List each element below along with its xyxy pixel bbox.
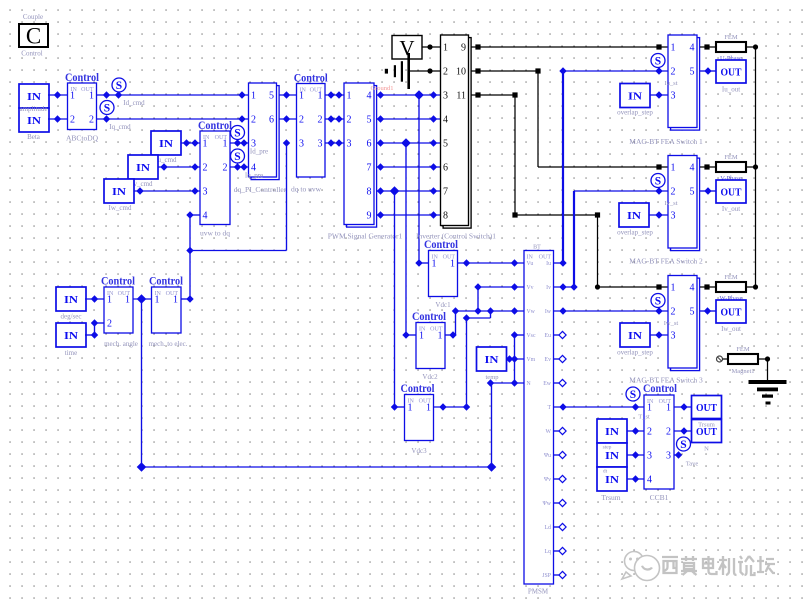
ground symbol [749,380,787,384]
svg-text:1: 1 [89,91,94,102]
FEA switch block MAG-BT FEA Switch 2 [671,158,700,251]
svg-text:IN: IN [628,91,642,103]
svg-text:1: 1 [318,91,323,102]
watermark text ximo motor forum [663,557,776,576]
wire PMSM Vv row [478,286,524,288]
svg-text:1: 1 [203,139,208,150]
svg-text:4: 4 [690,283,695,294]
svg-text:Control: Control [401,383,435,395]
svg-text:FEM: FEM [724,274,738,281]
svg-text:Iu: Iu [546,261,551,267]
voltage source V1 [392,36,422,60]
inverter block (Control Switch)1 [443,38,471,229]
wire PMSM Vsc row [515,334,525,336]
svg-text:v_cmd: v_cmd [133,180,153,188]
svg-text:FEM: FEM [724,34,738,41]
svg-text:IN: IN [605,426,619,438]
wire gate signal 3 [377,142,441,144]
terminal PMSM Eu [554,334,561,336]
svg-text:2: 2 [223,163,228,174]
svg-text:2: 2 [347,115,352,126]
svg-text:OUT: OUT [721,307,743,319]
svg-text:W: W [546,429,552,435]
wire CCB1 out2 to N OUT [674,430,692,432]
input block v_cmd [128,155,158,179]
svg-text:5: 5 [269,91,274,102]
svg-text:6: 6 [443,163,448,174]
wire modulation phase 1 [325,94,344,96]
junction tap to Vdc2 [401,138,411,148]
svg-text:Magnet1: Magnet1 [731,368,754,375]
svg-text:Control: Control [65,72,99,84]
integrator S8 T_st [626,387,640,401]
wire V1 to inverter pin1 [422,46,441,48]
svg-text:9: 9 [461,43,466,54]
svg-text:2: 2 [671,187,676,198]
input block overlap_step 1 [620,84,650,108]
svg-text:N: N [704,446,709,453]
wire PMSM N row [491,382,525,384]
svg-text:S: S [116,80,122,92]
svg-text:2: 2 [107,319,112,330]
svg-text:1: 1 [155,295,160,306]
svg-text:PMSM: PMSM [528,588,549,596]
junction switch2 pin2 [655,187,662,194]
svg-text:Ew: Ew [543,381,552,387]
output block Iv_out [716,180,746,203]
wire overlap_step3 to switch3 pin3 [650,334,668,336]
svg-text:S: S [630,389,636,401]
control block PWM Signal Generator [347,86,377,228]
svg-text:1: 1 [432,259,437,270]
terminal PMSM JSP [554,574,561,576]
wire overlap_step2 to switch2 pin3 [649,214,668,216]
integrator S1 Id_cmd [112,78,126,92]
svg-text:3: 3 [666,451,671,462]
svg-text:1: 1 [419,331,424,342]
svg-text:IN: IN [27,115,41,127]
svg-text:11: 11 [456,91,466,102]
wire into Vdc1 [415,259,422,266]
wire switch3 pin5 to Iw_out [700,310,716,312]
wire PMSM Iw output to switch3 pin2 [554,310,669,312]
svg-text:Ψw: Ψw [543,501,552,507]
svg-text:Vm: Vm [527,357,536,363]
integrator S3 Id_pre [231,126,245,140]
FEA switch block MAG-BT FEA Switch 1 [671,38,700,131]
svg-text:2: 2 [203,163,208,174]
wire PMSM T output to CCB1 pin1 [554,406,645,408]
terminal PMSM Psi-u [554,454,561,456]
svg-text:Control: Control [412,311,446,323]
wire dt to CCB1 pin4 [627,478,644,480]
svg-text:Iv_st: Iv_st [665,200,678,207]
svg-text:Iv_out: Iv_out [722,205,740,213]
svg-text:2: 2 [666,427,671,438]
svg-text:IN: IN [159,138,173,150]
wire electrical angle theta net [283,139,290,146]
svg-text:7: 7 [443,187,448,198]
svg-text:uvw to dq: uvw to dq [200,229,230,238]
wire FEM V to return bus [746,166,756,168]
wire Beta to ABCtoDQ pin2 [48,118,68,120]
input block u_cmd [151,131,181,155]
svg-text:1: 1 [443,43,448,54]
wire v_cmd to uvw-to-dq pin2 [158,166,200,168]
wire switch2 pin5 to Iv_out [700,190,716,192]
svg-text:PWM Signal Generator1: PWM Signal Generator1 [328,232,403,241]
wire Iv to switch2 pin2 [573,191,575,287]
terminal PMSM W [554,430,561,432]
svg-text:1: 1 [450,259,455,270]
watermark logo [622,552,660,581]
input block step [597,443,627,467]
svg-text:IN: IN [527,255,534,261]
svg-text:IN: IN [27,91,41,103]
svg-text:IN: IN [64,294,78,306]
svg-text:Vv: Vv [527,285,534,291]
svg-text:3: 3 [671,211,676,222]
svg-text:6: 6 [269,115,274,126]
svg-text:IN: IN [136,162,150,174]
input block amplitude [19,84,49,108]
control block dq_PI_Controller [251,86,279,180]
wire temp to PMSM Vm [507,358,525,360]
svg-text:2: 2 [647,427,652,438]
input block Beta [19,108,49,132]
svg-text:4: 4 [203,211,208,222]
terminal PMSM Psi-w [554,502,561,504]
svg-text:1: 1 [70,91,75,102]
svg-text:1: 1 [173,295,178,306]
terminal PMSM Ld [554,526,561,528]
svg-text:V: V [399,36,414,60]
svg-text:2: 2 [318,115,323,126]
wire PMSM Iu output [554,262,564,264]
svg-text:Iw_out: Iw_out [721,325,741,333]
svg-text:1: 1 [347,91,352,102]
svg-text:ABCtoDQ: ABCtoDQ [66,134,99,143]
svg-text:5: 5 [690,67,695,78]
svg-text:Iv: Iv [546,285,551,291]
svg-text:deg/sec: deg/sec [61,313,82,321]
svg-text:IN: IN [112,186,126,198]
wire phase U from inverter pin9 to switch1 pin1 [472,46,669,48]
svg-text:5: 5 [443,139,448,150]
input block deg/sec [56,287,86,311]
svg-text:8: 8 [443,211,448,222]
svg-text:Lq: Lq [545,549,552,555]
svg-text:overlap_step: overlap_step [617,229,653,237]
svg-text:Id_cmd: Id_cmd [123,99,145,107]
svg-text:7: 7 [367,163,372,174]
svg-text:2: 2 [251,115,256,126]
svg-text:amplitude: amplitude [20,105,48,113]
svg-text:Iw: Iw [545,309,552,315]
svg-text:CCB1: CCB1 [650,493,669,502]
input block overlap_step 2 [619,203,649,227]
wire gate signal 6 [377,214,441,216]
wire FEM W to return bus [746,286,756,288]
svg-text:overlap_step: overlap_step [617,109,653,117]
wire DC return bus vertical [755,47,757,287]
integrator S4 Iq_pre [231,149,245,163]
svg-text:3: 3 [671,331,676,342]
svg-text:mech. angle: mech. angle [104,340,138,348]
svg-text:step: step [603,445,612,451]
svg-text:C: C [26,24,41,49]
wire into Vdc3 [391,403,398,410]
wire Iu to switch1 pin2 [562,71,564,263]
junction switch1 pin2 [655,67,662,74]
wire w to CCB1 pin2 [627,430,644,432]
svg-text:2: 2 [671,307,676,318]
wire battery to inverter pin2 [409,70,441,72]
wire switch2 pin4 to FEM V-Phase [700,166,716,168]
integrator S2 Iq_cmd [100,101,114,115]
svg-text:Ground1: Ground1 [370,85,393,92]
svg-text:4: 4 [367,91,372,102]
wire vertical to Vdc3 input [394,191,396,407]
junction tap to Vdc1 [414,90,424,100]
svg-text:Vdc2: Vdc2 [422,373,438,381]
terminal open circle [717,356,723,362]
wire gate signal 5 [377,190,441,192]
svg-text:Ψu: Ψu [544,453,551,459]
wire Vdc3 output [434,406,467,408]
wire magnet to ground [758,358,768,360]
svg-text:BT: BT [533,245,541,251]
FEA switch block MAG-BT FEA Switch 3 [671,278,700,371]
svg-text:1: 1 [125,295,130,306]
svg-text:IN: IN [628,330,642,342]
svg-text:Control: Control [424,239,458,251]
wire Vdc2 output [445,334,456,336]
svg-text:T_st: T_st [638,414,650,421]
svg-text:Iw_cmd: Iw_cmd [109,204,132,212]
terminal PMSM Ew [554,382,561,384]
svg-text:Control: Control [149,276,183,288]
input block dt [597,467,627,491]
svg-text:9: 9 [367,211,372,222]
wire vertical to Vdc1 input [418,95,420,263]
svg-text:1: 1 [107,295,112,306]
wire gate signal 4 [377,166,441,168]
wire switch1 pin4 to FEM U-Phase [700,46,716,48]
junction switch3 pin2 [655,307,662,314]
wire mech angle to mech-to-elec [133,298,152,300]
svg-text:1: 1 [671,43,676,54]
junction tap to Vdc3 [390,186,400,196]
svg-text:4: 4 [690,163,695,174]
svg-text:1: 1 [408,403,413,414]
svg-text:OUT: OUT [539,255,552,261]
svg-text:5: 5 [367,115,372,126]
svg-text:Iu_out: Iu_out [722,86,740,94]
svg-text:Control: Control [643,383,677,395]
svg-text:Control: Control [101,276,135,288]
svg-text:S: S [655,56,661,68]
svg-text:Trsum: Trsum [601,493,620,502]
svg-text:Iu_st: Iu_st [665,80,678,87]
svg-text:1: 1 [299,91,304,102]
svg-text:IN: IN [627,210,641,222]
wire modulation phase 2 [325,118,344,120]
svg-text:Tave: Tave [686,461,699,468]
svg-text:S: S [655,296,661,308]
svg-text:3: 3 [203,187,208,198]
wire mech-to-elec output [181,298,190,300]
svg-text:3: 3 [299,139,304,150]
input block w [597,419,627,443]
svg-text:IN: IN [605,450,619,462]
wire deg/sec to mech angle pin1 [85,298,104,300]
svg-text:Vu: Vu [527,261,534,267]
svg-text:Vsc: Vsc [527,333,536,339]
svg-text:1: 1 [426,403,431,414]
wire Vd ref [280,94,297,96]
svg-text:1: 1 [223,139,228,150]
wire phase W from inverter pin11 [472,94,516,96]
svg-text:2: 2 [443,67,448,78]
wire neutral vertical [514,335,516,383]
output block Trsum [692,396,722,419]
wire w_cmd to uvw-to-dq pin3 [134,190,200,192]
svg-text:8: 8 [367,187,372,198]
svg-text:OUT: OUT [721,187,743,199]
svg-text:3: 3 [318,139,323,150]
svg-text:MAG-BT FEA Switch 1: MAG-BT FEA Switch 1 [629,137,703,146]
wire Id_cmd [97,94,249,96]
svg-text:6: 6 [367,139,372,150]
svg-text:2: 2 [671,67,676,78]
svg-text:1: 1 [251,91,256,102]
svg-text:Ψv: Ψv [544,477,551,483]
output block N [692,420,722,443]
svg-text:Trsum: Trsum [698,422,715,429]
svg-text:3: 3 [671,91,676,102]
svg-text:Id_pre: Id_pre [250,148,268,156]
svg-text:mech. to elec.: mech. to elec. [149,340,188,348]
terminal PMSM Ev [554,358,561,360]
svg-text:10: 10 [456,67,466,78]
svg-text:3: 3 [347,139,352,150]
svg-text:5: 5 [690,187,695,198]
wire Iq_cmd [97,118,249,120]
svg-text:OUT: OUT [696,402,718,414]
svg-text:FEM: FEM [736,346,750,353]
svg-text:FEM: FEM [724,154,738,161]
wire gate signal 1 [377,94,441,96]
wire gate signal 2 [377,118,441,120]
svg-text:JSP: JSP [542,573,551,579]
svg-text:Beta: Beta [27,133,41,141]
svg-text:Ev: Ev [545,357,552,363]
wire Vq ref [280,118,297,120]
wire vertical to Vdc2 input [405,143,407,335]
svg-text:Vdc3: Vdc3 [411,447,427,455]
svg-text:dq_PI_Controller: dq_PI_Controller [234,185,287,194]
wire PMSM Vw row [456,310,525,312]
svg-text:Couple: Couple [23,13,43,21]
svg-text:T: T [547,405,551,411]
svg-text:1: 1 [438,331,443,342]
svg-text:Ld: Ld [545,525,552,531]
svg-text:Vw: Vw [527,309,536,315]
wire CCB1 out1 to Trsum OUT [674,406,692,408]
wire phase V from inverter pin10 [472,70,539,72]
svg-text:2: 2 [70,115,75,126]
wire mech angle to PMSM N (bottom route) [141,299,143,467]
terminal PMSM Lq [554,550,561,552]
svg-text:MAG-BT FEA Switch 2: MAG-BT FEA Switch 2 [629,257,703,266]
svg-text:IN: IN [64,330,78,342]
output block Iw_out [716,300,746,323]
wire overlap_step1 to switch1 pin3 [650,94,668,96]
svg-text:dt: dt [603,469,608,475]
svg-text:IN: IN [605,474,619,486]
svg-text:IN: IN [485,354,499,366]
wire PMSM Iv output [554,286,575,288]
integrator S5 Iu_st [651,54,665,68]
output block Iu_out [716,60,746,83]
integrator S6 Iv_st [651,174,665,188]
svg-text:2: 2 [89,115,94,126]
svg-text:Vdc1: Vdc1 [435,301,451,309]
svg-text:u_cmd: u_cmd [157,156,177,164]
svg-text:Control: Control [294,73,328,85]
svg-text:1: 1 [671,283,676,294]
wire into Vdc2 [402,331,409,338]
wire modulation phase 3 [325,142,344,144]
input block temp [477,347,507,371]
input block Iw_cmd [104,179,134,203]
input block overlap_step 3 [620,323,650,347]
svg-text:2: 2 [299,115,304,126]
wire switch1 pin5 to Iu_out [700,70,716,72]
svg-text:4: 4 [647,475,652,486]
wire Vdc1 to PMSM Vu [458,262,525,264]
svg-text:overlap_step: overlap_step [617,349,653,357]
integrator S7 Iw_st [651,294,665,308]
svg-text:temp: temp [486,374,499,381]
wire u_cmd to uvw-to-dq pin1 [181,142,200,144]
svg-text:S: S [234,151,240,163]
svg-text:dq to uvw: dq to uvw [291,185,322,194]
svg-text:3: 3 [443,91,448,102]
svg-text:4: 4 [690,43,695,54]
svg-text:3: 3 [647,451,652,462]
svg-text:S: S [104,103,110,115]
svg-text:Control: Control [21,50,42,58]
svg-text:1: 1 [671,163,676,174]
svg-text:Eu: Eu [545,333,552,339]
wire Id_pre [230,142,249,144]
svg-text:time: time [65,349,77,357]
battery E1 [385,69,388,74]
svg-text:S: S [680,439,686,451]
svg-text:S: S [655,176,661,188]
wire FEM U to return bus [746,46,756,48]
wire Vv to Vw link [477,287,479,311]
wire Iq_pre [230,166,249,168]
svg-text:Iq_pre: Iq_pre [245,172,263,180]
wire amplitude to ABCtoDQ pin1 [48,94,68,96]
wire CCB1 out3 [674,454,679,456]
svg-text:1: 1 [647,403,652,414]
svg-text:S: S [234,128,240,140]
wire time to mech angle pin2 [85,334,95,336]
